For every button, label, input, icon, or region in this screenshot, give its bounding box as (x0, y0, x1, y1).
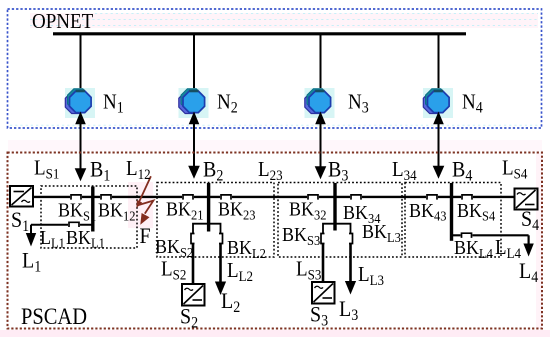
bus bar B4 (450, 183, 453, 241)
load wire L2 (215, 244, 226, 296)
PSCAD region box (8, 153, 543, 329)
wire bus to N4 (438, 35, 440, 93)
interface wire N2-B2 with arrows (188, 112, 200, 179)
svg-text:OPNET: OPNET (32, 10, 93, 33)
breaker BK_12 (100, 195, 112, 200)
breaker group box 2 (157, 183, 274, 258)
breaker BK_21 (182, 195, 194, 200)
breaker BK_34 (350, 195, 362, 200)
source S1 icon (10, 186, 33, 207)
svg-text:F: F (140, 223, 151, 248)
breaker BK_S4 (461, 195, 473, 200)
branch tee under B2 (193, 224, 221, 233)
node N2 icon (179, 88, 209, 118)
wire bus to N2 (193, 35, 195, 93)
interface wire N3-B3 with arrows (315, 112, 327, 180)
source S2 icon (182, 284, 205, 306)
node N4 icon (423, 88, 453, 118)
wire to S3 (322, 244, 325, 283)
bus bar B3 (333, 183, 336, 231)
breaker group box 3 (278, 183, 402, 258)
breaker BK_L1 (68, 222, 80, 227)
breaker BK_S2 (vertical) (191, 234, 195, 244)
source S3 icon (312, 282, 335, 304)
node N1 icon (65, 88, 95, 118)
node N3 icon (305, 88, 335, 118)
ethernet bus wire (53, 32, 466, 35)
breaker BK_L3 (vertical) (349, 234, 353, 244)
branch tee under B3 (323, 224, 351, 233)
breaker BK_L4 (461, 233, 473, 238)
breaker BK_32 (307, 195, 319, 200)
bus bar B1 (91, 187, 94, 232)
wire bus to N1 (80, 35, 82, 93)
interface wire N4-B4 with arrows (433, 112, 445, 179)
breaker group box 1 (41, 186, 137, 248)
breaker BK_S3 (vertical) (321, 234, 325, 244)
load wire L3 (345, 244, 356, 295)
OPNET region box (8, 9, 542, 128)
svg-text:PSCAD: PSCAD (21, 304, 87, 329)
bus bar B2 (207, 183, 210, 232)
load branch wire B4 (452, 235, 534, 256)
breaker BK_23 (220, 195, 232, 200)
fault bolt arrow (136, 176, 153, 225)
breaker BK_L2 (vertical) (219, 234, 223, 244)
wire to S2 (192, 244, 195, 285)
main transmission wire (33, 196, 515, 198)
breaker group box 4 (405, 183, 501, 258)
breaker BK_S1 (70, 195, 82, 200)
load wire L1 (26, 225, 93, 247)
wire bus to N3 (320, 35, 322, 93)
interface wire N1-B1 with arrows (75, 112, 87, 182)
breaker BK_43 (426, 195, 438, 200)
source S4 icon (515, 189, 538, 210)
